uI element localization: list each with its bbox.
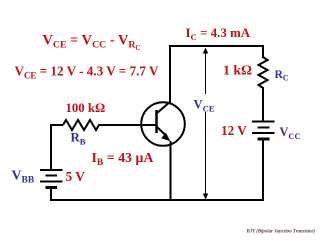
battery VCC plate short [258,127,270,129]
battery VCC plate short bottom [258,138,270,141]
wire RC to VCC battery [262,87,264,121]
wire base left horizontal [50,124,63,126]
transistor Q1 base bar [155,110,158,133]
battery VCC plate long top [252,121,275,123]
battery VBB plate short [46,175,58,177]
svg-text:1 kΩ: 1 kΩ [223,63,252,78]
svg-text:5 V: 5 V [66,169,86,184]
VCE indicator line lower [205,112,207,198]
transistor Q1 emitter diagonal [157,127,168,137]
svg-text:VCE = 12 V - 4.3 V = 7.7 V: VCE = 12 V - 4.3 V = 7.7 V [15,63,160,80]
resistor RC 1k zigzag [259,57,268,88]
svg-text:100 kΩ: 100 kΩ [66,101,106,115]
battery VBB plate long top [40,169,63,171]
battery VBB plate long [40,181,63,183]
VCE indicator arrow up [203,48,208,54]
wire VCC to bottom rail [262,140,264,201]
resistor RB 100k zigzag [63,120,99,130]
wire base left vertical [50,124,52,170]
wire top horizontal (collector node to RC) [169,45,263,47]
svg-text:12 V: 12 V [221,123,247,138]
wire base to transistor [98,124,157,126]
battery VBB plate short bottom [46,186,58,189]
battery VCC plate long [252,132,275,134]
wire RC top drop [262,45,264,58]
VCE indicator arrow down [203,194,208,200]
transistor Q1 collector diagonal [157,102,171,114]
wire collector vertical [169,45,171,102]
wire bottom rail [50,199,264,201]
VCE indicator line upper [205,52,207,94]
transistor Q1 emitter arrowhead [161,133,170,141]
wire emitter vertical [170,141,172,200]
transistor Q1 circle [141,102,185,146]
wire VBB to bottom rail [50,188,52,201]
svg-text:BJT (Bipolar Junction Transist: BJT (Bipolar Junction Transistor) [246,228,316,235]
